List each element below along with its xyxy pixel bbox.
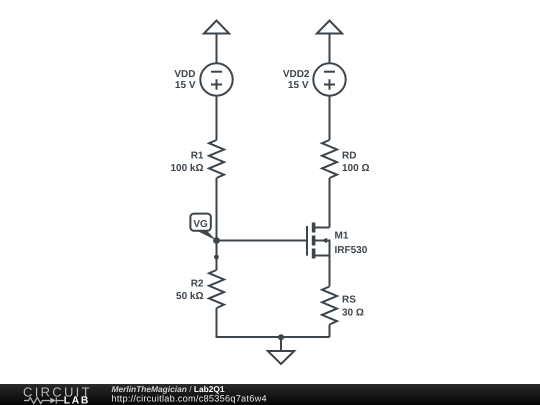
svg-text:VDD: VDD: [174, 69, 195, 80]
svg-text:100 Ω: 100 Ω: [342, 163, 369, 174]
svg-text:R1: R1: [191, 151, 204, 162]
svg-text:http://circuitlab.com/c85356q7: http://circuitlab.com/c85356q7at6w4: [112, 394, 267, 404]
svg-text:MerlinTheMagician / Lab2Q1: MerlinTheMagician / Lab2Q1: [112, 384, 225, 394]
svg-text:VDD2: VDD2: [283, 69, 310, 80]
svg-text:15 V: 15 V: [288, 80, 309, 91]
svg-text:100 kΩ: 100 kΩ: [170, 163, 203, 174]
svg-text:VG: VG: [193, 219, 208, 230]
svg-text:LAB: LAB: [64, 396, 90, 405]
svg-text:15 V: 15 V: [175, 80, 196, 91]
svg-text:30 Ω: 30 Ω: [342, 307, 364, 318]
svg-text:RS: RS: [342, 295, 356, 306]
svg-text:50 kΩ: 50 kΩ: [176, 291, 203, 302]
svg-text:M1: M1: [335, 230, 349, 241]
svg-text:IRF530: IRF530: [335, 245, 368, 256]
svg-text:R2: R2: [191, 279, 204, 290]
svg-text:RD: RD: [342, 151, 356, 162]
